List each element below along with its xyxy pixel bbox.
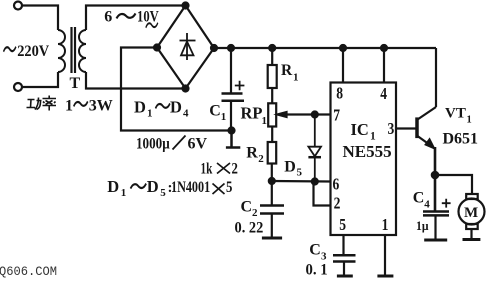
ground below motor	[463, 238, 481, 241]
svg-text:1: 1	[147, 108, 153, 120]
ground below pin1	[377, 275, 393, 278]
ground below C4	[424, 239, 447, 242]
wire bridge left vertex to negative rail	[121, 48, 232, 131]
ground below C3	[337, 275, 353, 278]
node bridge bottom	[183, 86, 189, 92]
node R1 top	[269, 45, 275, 51]
svg-text:RP: RP	[241, 104, 263, 123]
op IC1 NE555 box	[331, 83, 397, 236]
node bridge top	[183, 3, 189, 9]
svg-text:3W: 3W	[89, 98, 113, 115]
svg-text:1N4001: 1N4001	[171, 178, 210, 196]
transformer T secondary winding	[79, 30, 86, 72]
node RP1 wiper / D5 / pin7	[312, 112, 318, 118]
wire pin2 jog	[314, 182, 331, 206]
svg-text:D: D	[284, 158, 296, 175]
svg-text:VT: VT	[445, 106, 466, 122]
capacitor C4	[423, 199, 451, 240]
ground below C1	[226, 131, 240, 148]
svg-text:1: 1	[370, 131, 376, 143]
wire J1 to transformer primary top	[22, 6, 58, 31]
svg-text:2: 2	[258, 153, 264, 165]
node R2 bottom / C2	[269, 178, 275, 184]
wire pin1	[384, 235, 386, 276]
wire pin8	[342, 48, 344, 83]
svg-text:2: 2	[252, 207, 258, 219]
capacitor C1	[222, 48, 245, 131]
svg-text:1: 1	[221, 111, 227, 123]
node C1 negative junction	[229, 128, 235, 134]
ground below C2	[262, 237, 282, 240]
svg-text:7: 7	[333, 106, 340, 125]
svg-text:M: M	[464, 205, 478, 221]
terminal J1 (AC input top)	[14, 2, 22, 10]
svg-text:IC: IC	[351, 120, 369, 139]
node D5 cathode / pin6	[312, 179, 318, 185]
svg-text:C: C	[241, 199, 253, 216]
wire positive rail	[214, 47, 436, 49]
svg-text:1: 1	[382, 215, 389, 234]
svg-text:1: 1	[121, 187, 127, 199]
svg-text:R: R	[281, 62, 293, 79]
bridge inner diode symbol	[180, 33, 196, 60]
node C1 top	[228, 45, 234, 51]
svg-text:D: D	[170, 97, 182, 116]
svg-text:8: 8	[336, 84, 343, 103]
svg-text:1: 1	[65, 98, 73, 115]
node pin4 rail	[381, 45, 387, 51]
diode D5	[308, 115, 321, 182]
capacitor C3	[333, 255, 356, 275]
transformer T core	[70, 27, 72, 73]
svg-text:NE555: NE555	[343, 142, 392, 161]
svg-text:D: D	[147, 177, 159, 196]
svg-text:D: D	[107, 177, 119, 196]
svg-text:2: 2	[232, 160, 238, 178]
potentiometer RP1	[268, 103, 330, 142]
wire secondary bottom to bridge bottom vertex	[86, 72, 186, 89]
svg-text:1: 1	[262, 115, 268, 127]
svg-text:1: 1	[467, 115, 472, 126]
svg-text:5: 5	[160, 187, 166, 199]
node bridge right	[211, 45, 217, 51]
node emitter / C4 / motor	[432, 172, 438, 178]
transistor VT1	[417, 48, 436, 212]
wire pin4	[383, 48, 385, 83]
svg-text:4: 4	[380, 85, 387, 104]
svg-text:0. 22: 0. 22	[235, 219, 264, 237]
svg-text:Q606.COM: Q606.COM	[0, 265, 57, 279]
svg-text:C: C	[209, 103, 221, 120]
svg-text:D651: D651	[443, 131, 479, 148]
resistor R1	[268, 48, 277, 103]
wire R2/C2 node to pin6	[272, 180, 331, 183]
svg-text:T: T	[70, 75, 81, 92]
svg-text:1: 1	[293, 72, 299, 84]
svg-text:C: C	[413, 190, 425, 207]
svg-text:6: 6	[333, 175, 340, 194]
bridge rectifier D1-D4 diamond	[157, 6, 214, 89]
wire secondary top to bridge top vertex	[86, 6, 186, 31]
svg-text:5: 5	[339, 215, 346, 234]
svg-text:2: 2	[334, 194, 341, 213]
wire pin3 to base	[396, 127, 416, 129]
resistor R2	[268, 142, 277, 181]
terminal J2 (AC input bottom)	[14, 83, 22, 91]
svg-text:1000μ: 1000μ	[136, 135, 170, 152]
label 功率 (power)	[27, 96, 57, 111]
svg-text:1μ: 1μ	[416, 218, 428, 233]
svg-text:6: 6	[104, 8, 112, 25]
wire node to motor	[435, 175, 472, 194]
svg-text:5: 5	[297, 167, 303, 179]
capacitor C2	[260, 181, 284, 238]
svg-text:4: 4	[424, 199, 430, 211]
transformer T primary winding	[58, 30, 65, 72]
svg-text:3: 3	[388, 120, 395, 139]
svg-text:R: R	[246, 144, 258, 161]
svg-text:D: D	[134, 97, 146, 116]
svg-text:C: C	[309, 242, 321, 259]
svg-text:5: 5	[226, 179, 232, 197]
motor M	[459, 194, 485, 239]
node pin8 rail	[340, 45, 346, 51]
svg-text:6V: 6V	[188, 136, 208, 153]
label tilde under 6~10V	[146, 23, 158, 28]
svg-text:1k: 1k	[201, 160, 213, 177]
wire J2 to transformer primary bottom	[22, 72, 58, 87]
node bridge left	[154, 45, 160, 51]
svg-text:4: 4	[183, 108, 189, 120]
svg-text:220V: 220V	[17, 42, 49, 60]
wire pin5	[342, 235, 344, 255]
label ~220V	[4, 47, 16, 52]
svg-text:0. 1: 0. 1	[306, 261, 328, 279]
